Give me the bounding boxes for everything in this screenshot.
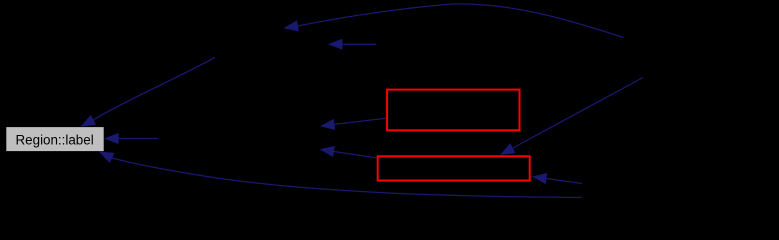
svg-text:Region::label: Region::label [16, 132, 94, 147]
